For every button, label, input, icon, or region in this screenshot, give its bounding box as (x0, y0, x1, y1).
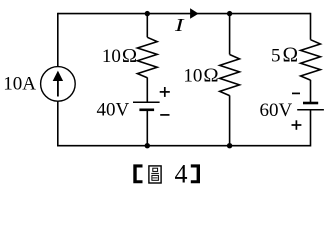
wire: branch-3 middle segment (resistor to battery) (310, 80, 312, 103)
caption character 圖 (figure) (149, 166, 161, 183)
wire: branch-1 top stub (146, 13, 148, 38)
svg-text:I: I (174, 15, 186, 35)
junction dot: top of branch 2 (227, 11, 232, 16)
wire: branch-2 top stub (229, 13, 231, 55)
wire: top bus (58, 13, 311, 15)
svg-text:10Ω: 10Ω (183, 64, 218, 86)
wire: branch-1 middle segment (resistor to battery) (146, 78, 148, 103)
plus sign of 40V battery (160, 87, 170, 97)
wire: branch-2 bottom segment (229, 95, 231, 146)
svg-text:60V: 60V (260, 100, 293, 121)
svg-text:10Ω: 10Ω (102, 45, 137, 67)
resistor 10Ω (left branch) (137, 37, 157, 77)
wire: branch-1 bottom segment (146, 110, 148, 147)
resistor 5Ω (right branch) (301, 40, 321, 80)
wire: branch-3 top stub (310, 13, 312, 40)
svg-text:40V: 40V (97, 100, 130, 121)
caption opening bracket 【 (133, 164, 142, 183)
wire: bottom bus (58, 145, 311, 147)
svg-text:4: 4 (175, 159, 188, 188)
junction dot: bottom of branch 2 (227, 143, 232, 148)
current source 10A (circle with up arrow) (41, 67, 76, 102)
junction dot: bottom of branch 1 (145, 143, 150, 148)
battery 60V (- top / + bottom) (297, 103, 324, 110)
minus sign of 40V battery (160, 114, 169, 116)
battery 40V (+ top / - bottom) (133, 102, 160, 110)
svg-text:10A: 10A (3, 73, 36, 94)
resistor 10Ω (middle branch) (220, 55, 240, 96)
plus sign of 60V battery (292, 120, 302, 130)
wire: branch-3 bottom segment (310, 110, 312, 147)
svg-text:5Ω: 5Ω (271, 42, 298, 66)
caption closing bracket 】 (191, 164, 200, 183)
wire: current-source branch bottom segment (57, 101, 59, 147)
current arrow on top bus (190, 8, 199, 18)
wire: current-source branch top segment (57, 13, 59, 67)
minus sign of 60V battery (292, 92, 300, 94)
junction dot: top of branch 1 (145, 11, 150, 16)
